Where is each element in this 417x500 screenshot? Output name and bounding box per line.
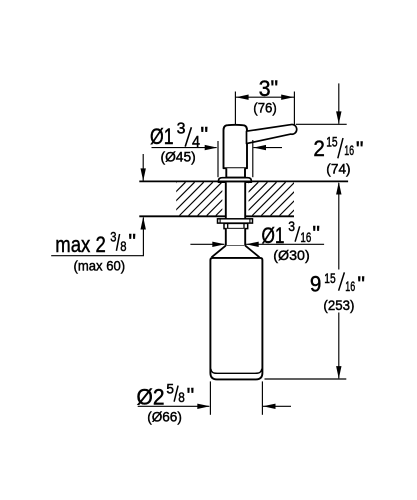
dim dia66 left leader line bbox=[138, 405, 210, 407]
pump head body bbox=[224, 125, 248, 168]
svg-text:8: 8 bbox=[178, 390, 185, 405]
threaded shank through countertop bbox=[226, 182, 245, 219]
dim max60 leader polyline bbox=[51, 218, 143, 256]
dim dia30 left arrowhead bbox=[212, 242, 225, 247]
svg-text:5: 5 bbox=[166, 381, 174, 396]
dim 3in right extension line bbox=[293, 92, 295, 126]
svg-text:2: 2 bbox=[313, 136, 325, 161]
svg-text:16: 16 bbox=[344, 143, 354, 158]
svg-text:8: 8 bbox=[120, 239, 127, 254]
escutcheon flange bbox=[218, 178, 251, 183]
dim max60 upper arrowhead bbox=[141, 168, 146, 181]
label max 2 3/8 fraction slash bbox=[116, 234, 119, 251]
countertop top surface line bbox=[139, 180, 348, 182]
label 9 15/16 fraction slash bbox=[339, 272, 345, 290]
svg-text:(76): (76) bbox=[253, 99, 276, 115]
dim 3in left extension line bbox=[234, 92, 236, 125]
dim 3in dimension line bbox=[235, 96, 294, 98]
dim dia66 right tail line bbox=[263, 405, 291, 407]
svg-text:": " bbox=[187, 384, 195, 408]
dim 74 top reference line bbox=[296, 123, 347, 125]
svg-text:(Ø66): (Ø66) bbox=[147, 408, 182, 424]
label dia 1 3/16 fraction slash bbox=[295, 226, 300, 241]
dim 3in right arrowhead bbox=[281, 95, 294, 100]
countertop bottom surface line bbox=[139, 215, 294, 217]
svg-text:": " bbox=[200, 123, 208, 148]
svg-text:max 2: max 2 bbox=[55, 232, 106, 257]
dim 3in left arrowhead bbox=[236, 95, 249, 100]
svg-text:9: 9 bbox=[310, 272, 322, 297]
svg-text:": " bbox=[312, 222, 320, 246]
dim max60 upper arrow line bbox=[142, 154, 144, 181]
bottle shoulder flare bbox=[212, 246, 260, 258]
svg-text:15: 15 bbox=[326, 135, 338, 150]
spout lever bbox=[247, 124, 297, 143]
dim dia66 left extension line bbox=[209, 381, 211, 414]
dim 253 upper dimension line bbox=[338, 183, 340, 270]
dim dia66 right extension line bbox=[261, 381, 263, 414]
dim dia45 right arrowhead bbox=[253, 145, 266, 150]
dim 74 upper arrowhead bbox=[336, 111, 341, 124]
svg-text:": " bbox=[357, 272, 365, 296]
dim dia45 right tail line bbox=[253, 147, 282, 149]
washer plate under countertop bbox=[218, 219, 253, 223]
svg-text:(max 60): (max 60) bbox=[74, 258, 126, 274]
svg-text:(Ø45): (Ø45) bbox=[161, 148, 196, 164]
dim dia30 left tail line bbox=[190, 243, 224, 245]
svg-text:Ø2: Ø2 bbox=[137, 385, 165, 410]
dim dia45 left extension line bbox=[217, 141, 219, 177]
dim dia66 left arrowhead bbox=[197, 404, 210, 409]
dim 253 lower dimension line bbox=[338, 313, 340, 379]
svg-text:": " bbox=[128, 229, 136, 253]
dim dia66 right arrowhead bbox=[263, 404, 276, 409]
svg-text:Ø1: Ø1 bbox=[150, 124, 174, 149]
svg-text:3: 3 bbox=[110, 230, 116, 245]
dim 253 bottom reference line bbox=[265, 378, 347, 380]
dim dia45 left arrowhead bbox=[205, 145, 218, 150]
svg-text:": " bbox=[356, 137, 364, 161]
pump neck above flange bbox=[226, 168, 245, 177]
bottle (reservoir) body bbox=[210, 258, 262, 380]
svg-text:Ø1: Ø1 bbox=[262, 223, 285, 248]
svg-text:(74): (74) bbox=[326, 161, 350, 177]
dim dia45 right extension line bbox=[252, 140, 254, 177]
dim max60 lower arrowhead bbox=[141, 217, 146, 230]
dim 74 lower arrowhead bbox=[336, 182, 341, 195]
mounting nut bbox=[224, 223, 248, 228]
dim 74 upper dimension line bbox=[338, 83, 340, 123]
svg-text:(253): (253) bbox=[323, 297, 354, 313]
dim dia30 right tail line bbox=[246, 243, 324, 245]
bottle neck below nut bbox=[226, 229, 245, 246]
svg-text:3": 3" bbox=[259, 76, 279, 101]
svg-text:16: 16 bbox=[345, 279, 355, 294]
svg-text:(Ø30): (Ø30) bbox=[273, 247, 309, 263]
svg-text:16: 16 bbox=[300, 230, 311, 245]
svg-text:15: 15 bbox=[324, 271, 336, 286]
label 2 15/16 fraction slash bbox=[338, 138, 343, 158]
bottle bottom inner line bbox=[211, 369, 262, 374]
svg-text:3: 3 bbox=[177, 121, 186, 138]
svg-text:3: 3 bbox=[288, 219, 295, 234]
dim dia45 left leader line bbox=[152, 147, 217, 149]
dim dia30 right arrowhead bbox=[246, 242, 259, 247]
dim 253 bottom arrowhead bbox=[336, 366, 341, 379]
label dia 1 3/4 fraction slash bbox=[185, 127, 191, 146]
label dia 2 5/8 fraction slash bbox=[174, 386, 178, 402]
